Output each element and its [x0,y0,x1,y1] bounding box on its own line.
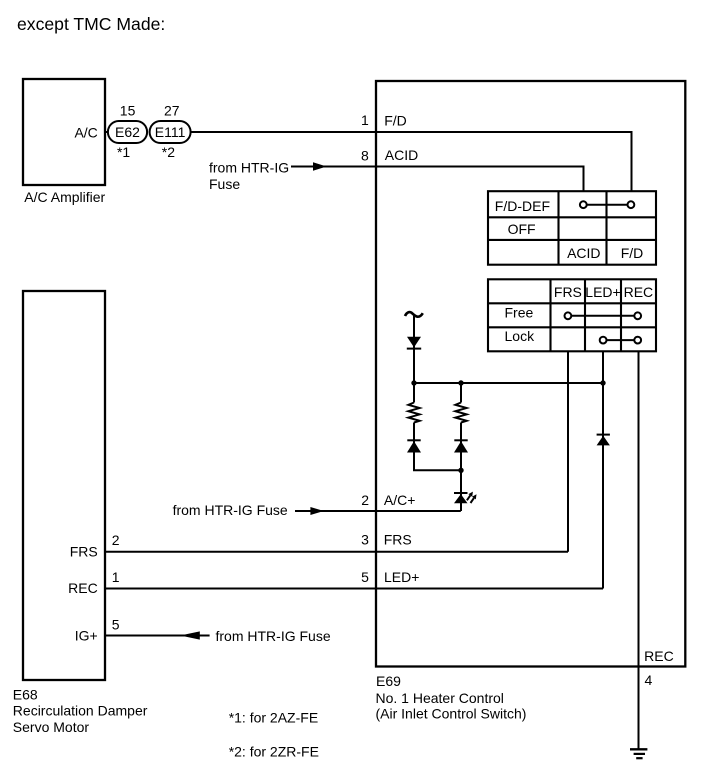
svg-text:3: 3 [361,532,369,548]
svg-text:E69: E69 [376,673,401,689]
svg-text:OFF: OFF [508,221,536,237]
svg-text:A/C+: A/C+ [384,492,416,508]
svg-text:27: 27 [164,103,180,119]
svg-text:ACID: ACID [567,245,600,261]
svg-text:Servo Motor: Servo Motor [13,719,90,735]
svg-text:Recirculation Damper: Recirculation Damper [13,702,148,718]
svg-text:F/D: F/D [384,112,407,128]
svg-text:FRS: FRS [70,544,98,560]
svg-text:15: 15 [120,103,136,119]
svg-text:*1: *1 [117,144,130,160]
svg-text:2: 2 [112,532,120,548]
svg-text:E111: E111 [155,124,186,140]
svg-text:A/C: A/C [74,125,97,141]
svg-text:REC: REC [624,284,654,300]
svg-text:(Air Inlet Control Switch): (Air Inlet Control Switch) [376,706,527,722]
svg-text:FRS: FRS [384,532,412,548]
svg-text:REC: REC [68,580,98,596]
svg-text:Fuse: Fuse [209,176,240,192]
svg-text:E62: E62 [115,124,140,140]
svg-text:A/C Amplifier: A/C Amplifier [24,189,105,205]
svg-text:No. 1 Heater Control: No. 1 Heater Control [376,690,504,706]
svg-text:E68: E68 [13,686,38,702]
svg-text:*1: for 2AZ-FE: *1: for 2AZ-FE [229,709,318,725]
svg-text:from HTR-IG Fuse: from HTR-IG Fuse [173,502,288,518]
svg-text:IG+: IG+ [75,628,98,644]
svg-text:FRS: FRS [554,284,582,300]
svg-text:1: 1 [361,112,369,128]
svg-text:from HTR-IG Fuse: from HTR-IG Fuse [216,628,331,644]
svg-text:5: 5 [361,569,369,585]
svg-text:F/D: F/D [621,245,644,261]
svg-text:1: 1 [112,569,120,585]
svg-text:*2: *2 [162,144,175,160]
svg-text:Free: Free [505,304,534,320]
svg-text:LED+: LED+ [585,284,620,300]
svg-text:REC: REC [644,648,674,664]
svg-text:except TMC Made:: except TMC Made: [17,14,165,34]
svg-text:from HTR-IG: from HTR-IG [209,160,289,176]
svg-text:Lock: Lock [505,328,536,344]
svg-text:8: 8 [361,148,369,164]
svg-text:F/D-DEF: F/D-DEF [495,198,550,214]
svg-text:5: 5 [112,616,120,632]
svg-text:*2: for 2ZR-FE: *2: for 2ZR-FE [229,744,319,760]
svg-text:4: 4 [645,672,653,688]
svg-text:2: 2 [361,492,369,508]
svg-text:LED+: LED+ [384,569,419,585]
svg-text:ACID: ACID [385,147,418,163]
